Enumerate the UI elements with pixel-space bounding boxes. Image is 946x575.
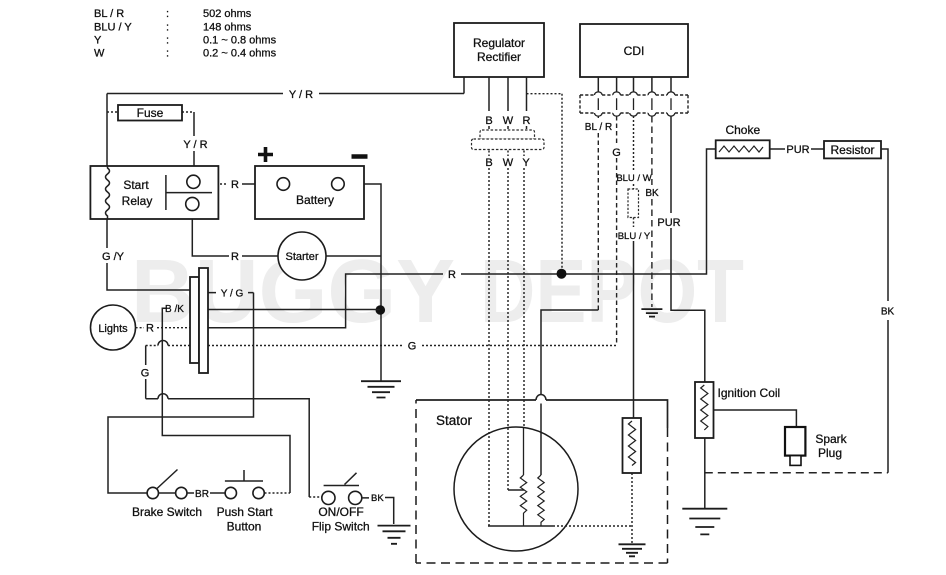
svg-text:BLU / W: BLU / W <box>616 173 651 184</box>
svg-text:148 ohms: 148 ohms <box>203 22 252 34</box>
svg-text:Brake Switch: Brake Switch <box>132 505 202 519</box>
wire coil to ground <box>704 438 706 508</box>
svg-text:G: G <box>141 368 150 380</box>
svg-text:B: B <box>485 115 492 127</box>
battery - mark <box>352 154 368 159</box>
svg-text:W: W <box>94 48 105 60</box>
choke CH1 <box>716 140 770 158</box>
wire left G/Y vertical <box>107 94 190 291</box>
svg-text:Rectifier: Rectifier <box>477 50 521 64</box>
svg-text:502 ohms: 502 ohms <box>203 8 252 20</box>
svg-text:Regulator: Regulator <box>473 36 525 50</box>
connector J1 regulator <box>480 130 535 140</box>
battery terminal - <box>332 178 345 191</box>
relay coil <box>106 166 110 219</box>
wire B dotted to stator <box>488 151 490 527</box>
wire Y/G from switch to brake <box>108 293 254 493</box>
legend resistance table <box>94 8 277 60</box>
wire relay to battery R <box>200 183 228 185</box>
wire stator bottom bus <box>488 525 553 527</box>
stator coil 2 (BL/R) <box>538 475 544 526</box>
battery + mark <box>258 147 273 162</box>
wire BK from CDI <box>651 116 653 307</box>
svg-text:Y: Y <box>94 35 102 47</box>
wire G from CDI <box>616 116 618 346</box>
resistor R2 inline <box>628 189 639 218</box>
ground G2 BK <box>641 309 662 317</box>
wire relay to starter <box>192 211 278 256</box>
wire W dotted to stator <box>507 151 509 491</box>
svg-text:Y / R: Y / R <box>183 139 207 151</box>
wire G bottom run to flip switch <box>146 399 310 497</box>
svg-text:W: W <box>503 157 514 169</box>
wire bottom dashed return <box>705 472 888 474</box>
wire fuse stubs <box>107 111 194 113</box>
wire W stub to coil1 <box>508 489 524 491</box>
wire fuse to relay Y/R <box>193 112 195 175</box>
svg-text:BL / R: BL / R <box>94 8 124 20</box>
svg-text:R: R <box>146 323 154 335</box>
starter M1 <box>278 232 326 280</box>
hop over stator edge <box>540 404 542 476</box>
svg-text:BLU / Y: BLU / Y <box>94 22 132 34</box>
wires CDI pins <box>598 77 671 92</box>
ignition key switch S1 <box>190 277 199 363</box>
battery BT1 <box>255 166 364 219</box>
node G/Y label <box>88 248 117 263</box>
svg-text:BK: BK <box>645 188 659 199</box>
relay terminal bottom <box>186 197 199 210</box>
svg-text::: : <box>166 22 169 34</box>
svg-text:BR: BR <box>195 489 209 500</box>
svg-text:BL / R: BL / R <box>585 122 612 133</box>
svg-text:B: B <box>485 157 492 169</box>
svg-text:Lights: Lights <box>98 323 128 335</box>
stator flywheel circle <box>454 427 578 551</box>
svg-text:R: R <box>231 251 239 263</box>
svg-text:G: G <box>612 147 621 159</box>
ground G1 below junction <box>361 381 401 397</box>
svg-text:0.2 ~ 0.4 ohms: 0.2 ~ 0.4 ohms <box>203 48 277 60</box>
svg-text:Choke: Choke <box>725 123 760 137</box>
lights L1 <box>91 305 136 350</box>
svg-text:Plug: Plug <box>818 446 842 460</box>
push start button S3 <box>225 487 236 498</box>
node Y/R label <box>283 86 319 101</box>
wire BL/R horizontal to stator <box>541 310 598 394</box>
relay contact bar <box>166 175 212 210</box>
regulator rectifier U1 <box>454 23 544 77</box>
wire Y dotted to stator <box>523 151 525 429</box>
battery terminal + <box>277 178 290 191</box>
ignition coil T1 <box>695 382 714 438</box>
connector J2 CDI <box>580 95 688 113</box>
wire BLU/W from CDI <box>633 116 635 189</box>
wire G dotted main run <box>146 345 617 347</box>
spark plug SP1 <box>785 427 805 456</box>
svg-text:BLU / Y: BLU / Y <box>618 231 651 242</box>
svg-text:Button: Button <box>227 520 262 534</box>
svg-text:BK: BK <box>881 307 895 318</box>
junction R node <box>557 269 567 279</box>
CDI U2 <box>580 24 688 77</box>
svg-text:CDI: CDI <box>624 44 645 58</box>
svg-text:Push Start: Push Start <box>217 505 274 519</box>
on/off flip switch S4 <box>322 491 335 504</box>
wire BLU/Y solid to pickup <box>633 241 635 418</box>
svg-text:Relay: Relay <box>122 194 153 208</box>
svg-text::: : <box>166 48 169 60</box>
svg-text:W: W <box>503 115 514 127</box>
wire lights R dotted <box>136 327 190 329</box>
svg-text:BK: BK <box>371 493 384 504</box>
svg-text:Y / R: Y / R <box>289 89 313 101</box>
resistor R1 <box>824 141 881 158</box>
svg-text:Flip Switch: Flip Switch <box>312 520 370 534</box>
stator assembly box <box>416 400 668 428</box>
svg-text:G: G <box>408 341 417 353</box>
wire B/K kill loop left <box>162 308 290 493</box>
junction battery-neg/kill <box>376 305 386 315</box>
wire Y/R main top run <box>107 77 464 94</box>
svg-text:Battery: Battery <box>296 193 334 207</box>
wire pickup to ground dotted <box>631 473 633 543</box>
wire choke-PUR-resistor <box>770 149 888 301</box>
svg-text:G /Y: G /Y <box>102 251 125 263</box>
relay terminal top <box>187 175 200 188</box>
fuse F1 <box>118 105 182 121</box>
svg-text::: : <box>166 8 169 20</box>
svg-text:Y: Y <box>522 157 530 169</box>
wire B/K kill line right <box>208 309 380 311</box>
wires regulator pins to connector <box>489 77 527 129</box>
svg-text:Fuse: Fuse <box>137 106 164 120</box>
svg-text:R: R <box>231 179 239 191</box>
wire R from key switch to choke <box>208 274 443 328</box>
svg-text::: : <box>166 35 169 47</box>
svg-text:Ignition Coil: Ignition Coil <box>718 386 781 400</box>
wire R branch dotted to junction <box>527 94 563 269</box>
svg-text:Stator: Stator <box>436 413 473 428</box>
svg-text:ON/OFF: ON/OFF <box>318 505 363 519</box>
svg-text:Starter: Starter <box>285 251 318 263</box>
wire starter to battery-neg net <box>326 255 381 257</box>
brake switch S2 <box>147 487 158 498</box>
wire PUR from CDI to ignition coil <box>671 116 705 382</box>
ground G3 flip switch <box>378 526 411 544</box>
wire coil HT lead to spark plug <box>714 410 797 427</box>
svg-text:Start: Start <box>123 178 149 192</box>
svg-text:R: R <box>523 115 531 127</box>
svg-text:PUR: PUR <box>657 217 680 229</box>
start relay K1 <box>90 166 218 219</box>
svg-text:B /K: B /K <box>165 304 184 315</box>
svg-text:PUR: PUR <box>786 144 809 156</box>
wire battery to starter vertical <box>344 184 381 381</box>
svg-text:Resistor: Resistor <box>830 143 874 157</box>
wire G net bracket <box>145 346 147 399</box>
ground G4 pickup <box>619 544 646 556</box>
svg-text:0.1 ~ 0.8 ohms: 0.1 ~ 0.8 ohms <box>203 35 277 47</box>
svg-text:Spark: Spark <box>815 432 847 446</box>
svg-text:R: R <box>448 269 456 281</box>
stator coil 1 (Y) <box>520 475 526 526</box>
ground G5 ignition <box>682 509 727 535</box>
wire BK right side down <box>887 320 889 473</box>
svg-text:Y / G: Y / G <box>221 289 244 300</box>
pickup coil P1 <box>623 418 642 473</box>
wire BL/R from CDI <box>597 116 599 310</box>
